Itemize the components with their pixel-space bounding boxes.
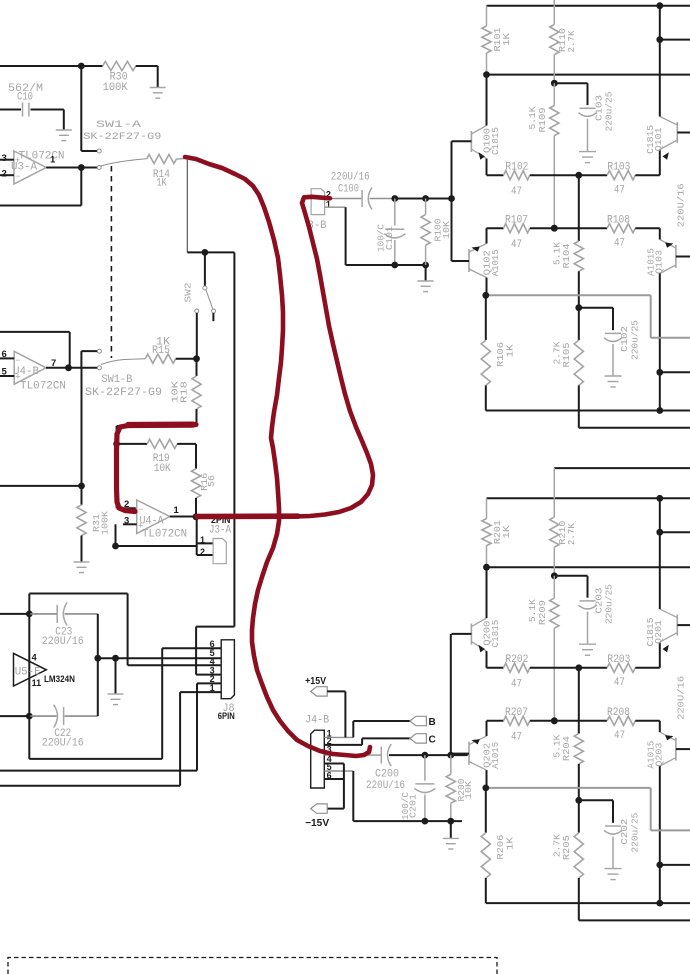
- svg-text:1K: 1K: [501, 33, 512, 46]
- svg-text:1: 1: [50, 155, 56, 166]
- svg-text:220U/16: 220U/16: [366, 780, 405, 792]
- svg-text:R203: R203: [607, 654, 630, 666]
- svg-text:R204: R204: [561, 736, 572, 761]
- svg-text:1: 1: [326, 200, 331, 210]
- svg-text:A1015: A1015: [490, 742, 501, 769]
- svg-text:220u/25: 220u/25: [604, 91, 615, 131]
- svg-text:56: 56: [206, 475, 217, 487]
- svg-text:C200: C200: [375, 769, 399, 781]
- svg-text:C100: C100: [338, 184, 359, 196]
- svg-text:2: 2: [2, 169, 7, 180]
- svg-text:100K: 100K: [103, 82, 128, 94]
- svg-text:R108: R108: [607, 215, 630, 227]
- svg-text:Q201: Q201: [653, 620, 664, 644]
- svg-text:220U/16: 220U/16: [331, 172, 370, 184]
- svg-text:47: 47: [614, 185, 625, 197]
- svg-text:−15V: −15V: [305, 818, 329, 829]
- svg-text:SW1-B: SW1-B: [101, 374, 132, 386]
- svg-text:220U/16: 220U/16: [42, 636, 84, 648]
- svg-text:47: 47: [511, 186, 522, 198]
- svg-text:6PIN: 6PIN: [218, 711, 235, 722]
- svg-text:R104: R104: [561, 243, 572, 268]
- svg-text:TL072CN: TL072CN: [142, 529, 187, 541]
- svg-text:R207: R207: [505, 707, 528, 719]
- svg-text:2: 2: [200, 547, 205, 557]
- svg-text:U4-B: U4-B: [13, 366, 39, 378]
- svg-text:R202: R202: [505, 654, 528, 666]
- svg-text:R15: R15: [152, 345, 170, 357]
- svg-text:220u/25: 220u/25: [629, 812, 640, 852]
- svg-text:U5-E: U5-E: [15, 667, 41, 679]
- svg-text:Q203: Q203: [654, 742, 665, 766]
- svg-text:1: 1: [210, 683, 215, 693]
- svg-text:TL072CN: TL072CN: [20, 381, 66, 393]
- svg-text:47: 47: [614, 677, 625, 689]
- svg-text:−: −: [15, 172, 20, 182]
- svg-text:3: 3: [2, 153, 7, 164]
- svg-text:U3-A: U3-A: [11, 162, 37, 174]
- svg-text:LM324N: LM324N: [44, 674, 75, 685]
- svg-text:10K: 10K: [441, 221, 452, 239]
- svg-text:220U/16: 220U/16: [676, 676, 687, 720]
- svg-text:SK-22F27-G9: SK-22F27-G9: [83, 131, 161, 143]
- svg-text:SK-22F27-G9: SK-22F27-G9: [85, 387, 162, 399]
- svg-text:1: 1: [174, 505, 180, 516]
- svg-text:J4-B: J4-B: [305, 715, 329, 727]
- svg-text:47: 47: [511, 239, 522, 251]
- svg-text:SW2: SW2: [182, 282, 193, 302]
- svg-text:1K: 1K: [501, 525, 512, 538]
- svg-text:1K: 1K: [504, 837, 515, 850]
- svg-text:1K: 1K: [504, 344, 515, 357]
- svg-text:10K: 10K: [463, 781, 474, 799]
- svg-text:1K: 1K: [157, 178, 167, 190]
- svg-text:R107: R107: [505, 215, 528, 227]
- svg-text:47: 47: [614, 238, 625, 250]
- svg-text:5: 5: [2, 367, 8, 378]
- svg-text:J3-A: J3-A: [209, 525, 231, 537]
- svg-text:C201: C201: [407, 794, 418, 818]
- svg-text:R103: R103: [607, 162, 630, 174]
- svg-text:R109: R109: [537, 107, 548, 132]
- svg-text:C: C: [429, 735, 436, 746]
- svg-text:220U/16: 220U/16: [676, 183, 687, 227]
- svg-text:R105: R105: [561, 342, 572, 367]
- svg-text:B: B: [429, 717, 436, 728]
- svg-text:R209: R209: [537, 600, 548, 625]
- svg-text:10K: 10K: [154, 463, 171, 475]
- svg-text:SW1-A: SW1-A: [96, 119, 142, 131]
- svg-text:11: 11: [32, 678, 42, 688]
- svg-text:R102: R102: [505, 162, 528, 174]
- svg-text:+15V: +15V: [305, 676, 326, 687]
- svg-text:220u/25: 220u/25: [629, 320, 640, 360]
- svg-text:R205: R205: [561, 835, 572, 860]
- svg-text:100K: 100K: [99, 510, 110, 535]
- svg-text:Q103: Q103: [654, 250, 665, 274]
- svg-text:−: −: [138, 505, 143, 515]
- svg-text:U4-A: U4-A: [140, 516, 164, 528]
- svg-text:220u/25: 220u/25: [604, 584, 615, 624]
- svg-text:4: 4: [32, 653, 37, 663]
- svg-text:Q101: Q101: [653, 127, 664, 151]
- svg-text:C10: C10: [17, 92, 33, 104]
- svg-text:C101: C101: [384, 226, 395, 250]
- svg-text:C1815: C1815: [490, 127, 501, 155]
- svg-text:6: 6: [2, 349, 7, 360]
- svg-text:2.7K: 2.7K: [566, 30, 577, 52]
- svg-text:1: 1: [200, 535, 205, 545]
- svg-text:220U/16: 220U/16: [42, 738, 84, 750]
- svg-text:A1015: A1015: [490, 249, 501, 276]
- svg-text:R18: R18: [179, 381, 190, 403]
- svg-text:47: 47: [614, 730, 625, 742]
- svg-text:−: −: [15, 356, 20, 366]
- svg-text:47: 47: [511, 679, 522, 691]
- svg-text:R208: R208: [607, 707, 630, 719]
- svg-text:2.7K: 2.7K: [566, 523, 577, 545]
- svg-text:C1815: C1815: [490, 619, 501, 647]
- svg-text:47: 47: [511, 732, 522, 744]
